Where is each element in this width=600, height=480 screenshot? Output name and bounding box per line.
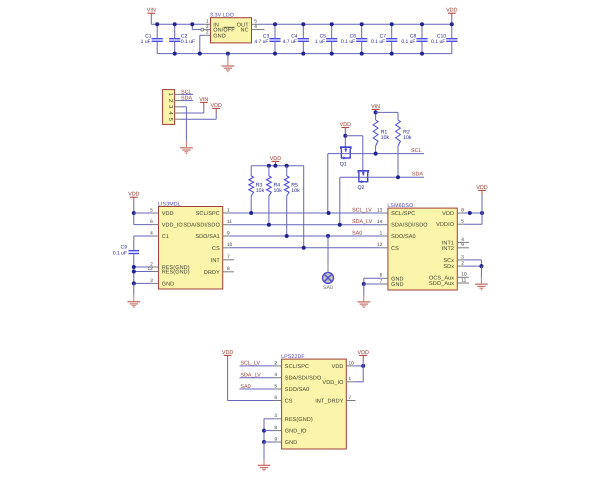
svg-text:0.1 uF: 0.1 uF <box>401 39 415 45</box>
svg-text:SDO/SA0: SDO/SA0 <box>391 234 416 240</box>
svg-text:GND_IO: GND_IO <box>285 429 307 435</box>
svg-text:SCL: SCL <box>181 89 192 95</box>
svg-text:DRDY: DRDY <box>204 270 220 276</box>
svg-text:SDA/SDI/SDO: SDA/SDI/SDO <box>183 223 220 229</box>
svg-text:SDO/SA1: SDO/SA1 <box>195 234 220 240</box>
svg-text:CS: CS <box>212 246 220 252</box>
svg-text:GND: GND <box>285 440 298 446</box>
svg-text:GND: GND <box>162 281 175 287</box>
svg-text:6: 6 <box>150 219 153 225</box>
svg-text:SA0: SA0 <box>323 285 333 291</box>
svg-text:SCL/SPC: SCL/SPC <box>391 211 415 217</box>
svg-text:5: 5 <box>274 383 277 389</box>
svg-text:10k: 10k <box>381 135 390 141</box>
svg-text:SCL_LV: SCL_LV <box>240 361 260 367</box>
svg-text:5: 5 <box>167 118 173 121</box>
svg-text:4.7 uF: 4.7 uF <box>283 39 297 45</box>
svg-text:1: 1 <box>380 230 383 236</box>
svg-text:SDA: SDA <box>412 172 423 178</box>
svg-text:6: 6 <box>274 395 277 401</box>
svg-text:VDDIO: VDDIO <box>436 222 455 228</box>
svg-text:VDD_IO: VDD_IO <box>322 380 344 386</box>
svg-text:SCL: SCL <box>411 148 422 154</box>
svg-text:14: 14 <box>377 219 383 225</box>
svg-text:0.1 uF: 0.1 uF <box>113 251 127 257</box>
svg-text:Q2: Q2 <box>358 185 365 191</box>
svg-text:5: 5 <box>254 19 257 25</box>
svg-text:4.7 uF: 4.7 uF <box>254 39 268 45</box>
svg-text:3: 3 <box>150 278 153 284</box>
svg-text:4: 4 <box>254 24 257 30</box>
svg-text:VDD: VDD <box>442 211 454 217</box>
svg-text:4: 4 <box>150 230 153 236</box>
svg-text:10k: 10k <box>403 135 412 141</box>
svg-text:2: 2 <box>167 99 174 102</box>
svg-text:SCx: SCx <box>443 258 454 264</box>
svg-text:8: 8 <box>274 425 277 431</box>
svg-text:4: 4 <box>274 372 277 378</box>
svg-text:RES(GND): RES(GND) <box>162 270 190 276</box>
svg-text:SCL_LV: SCL_LV <box>352 207 372 213</box>
svg-text:0.1 uF: 0.1 uF <box>371 39 385 45</box>
svg-text:SDx: SDx <box>443 264 454 270</box>
svg-text:3.3V LDO: 3.3V LDO <box>210 13 234 19</box>
svg-text:SDA_LV: SDA_LV <box>240 373 261 379</box>
svg-text:3: 3 <box>274 413 277 419</box>
svg-text:VDD: VDD <box>128 191 139 197</box>
svg-text:3: 3 <box>167 105 174 108</box>
svg-text:SDO_Aux: SDO_Aux <box>429 281 454 287</box>
svg-text:9: 9 <box>274 436 277 442</box>
svg-text:SDA/SDI/SDO: SDA/SDI/SDO <box>391 223 428 229</box>
svg-text:2: 2 <box>274 360 277 366</box>
svg-text:NC: NC <box>241 28 249 34</box>
svg-text:3: 3 <box>206 24 209 30</box>
svg-text:VDD: VDD <box>332 364 344 370</box>
svg-text:12: 12 <box>147 266 153 272</box>
svg-text:0.1 uF: 0.1 uF <box>181 39 195 45</box>
svg-text:SDA/SDI/SDO: SDA/SDI/SDO <box>285 376 322 382</box>
svg-text:1: 1 <box>206 19 209 25</box>
svg-text:SCL/SPC: SCL/SPC <box>285 364 309 370</box>
svg-text:VDD: VDD <box>162 211 174 217</box>
svg-text:RES(GND): RES(GND) <box>285 417 313 423</box>
svg-text:13: 13 <box>377 207 383 213</box>
svg-text:SCL/SPC: SCL/SPC <box>196 211 220 217</box>
svg-text:CS: CS <box>391 246 399 252</box>
svg-text:0.1 uF: 0.1 uF <box>341 39 355 45</box>
svg-text:INT: INT <box>211 258 221 264</box>
svg-text:2: 2 <box>206 30 209 36</box>
svg-text:LPS22DF: LPS22DF <box>281 354 305 360</box>
svg-text:10k: 10k <box>256 188 265 194</box>
svg-text:INT2: INT2 <box>442 246 454 252</box>
svg-text:10k: 10k <box>291 188 300 194</box>
svg-text:SA0: SA0 <box>352 230 362 236</box>
svg-text:5: 5 <box>150 207 153 213</box>
svg-text:GND: GND <box>391 282 404 288</box>
svg-text:LSM6DSO: LSM6DSO <box>387 203 413 209</box>
svg-text:12: 12 <box>377 242 383 248</box>
svg-text:1 uF: 1 uF <box>315 39 325 45</box>
svg-text:10k: 10k <box>274 188 283 194</box>
svg-text:SDA_LV: SDA_LV <box>352 219 373 225</box>
svg-text:1: 1 <box>167 93 173 96</box>
svg-text:VDD_IO: VDD_IO <box>162 223 184 229</box>
svg-text:1 uF: 1 uF <box>141 39 151 45</box>
svg-text:SDO/SA0: SDO/SA0 <box>285 387 310 393</box>
svg-text:C1: C1 <box>162 234 169 240</box>
svg-text:CS: CS <box>285 399 293 405</box>
svg-text:0.1 uF: 0.1 uF <box>431 39 445 45</box>
svg-text:INT_DRDY: INT_DRDY <box>315 399 344 405</box>
svg-text:Q1: Q1 <box>340 161 347 167</box>
svg-text:SA0: SA0 <box>240 384 250 390</box>
svg-text:GND: GND <box>213 33 226 39</box>
svg-text:LIS3MDL: LIS3MDL <box>158 201 181 207</box>
svg-text:SDA: SDA <box>181 96 192 102</box>
